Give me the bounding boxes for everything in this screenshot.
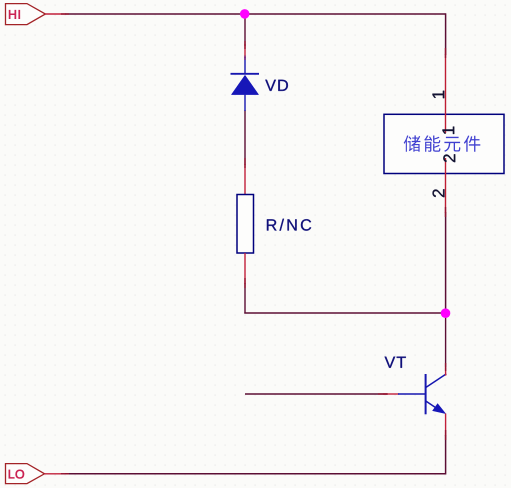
wire transition above diode VD (244, 41, 246, 49)
port LO stub (45, 473, 66, 475)
wire transition below pin 2 of U1 (445, 207, 447, 217)
label 储 (404, 135, 421, 151)
port LO (6, 464, 45, 484)
transistor VT bar (425, 374, 427, 414)
wire box to node (445, 212, 447, 313)
storage element box pin 2 red (445, 158, 447, 213)
wire transition at HI port stub (61, 13, 69, 15)
transistor VT emitter pin red (445, 414, 447, 437)
storage element box body (384, 114, 504, 173)
wire diode to resistor (244, 110, 246, 165)
wire transition into diode VD anode-side pin (244, 56, 246, 61)
diode VD triangle (231, 75, 258, 94)
diode VD cathode bar (231, 73, 260, 75)
label VT (385, 357, 406, 368)
wire top-right vertical (445, 13, 447, 55)
junction node right (441, 308, 451, 318)
storage element box pin 1 red (445, 54, 447, 133)
pin 1 number outside (433, 91, 445, 98)
label 件 (464, 136, 480, 152)
wire transition at LO port stub (61, 473, 69, 475)
resistor R/NC pin top red (244, 164, 246, 195)
resistor R/NC body (237, 195, 254, 254)
wire emitter to bottom (445, 435, 447, 475)
wire transition below emitter of VT (445, 430, 447, 440)
label 能 (424, 135, 440, 151)
transistor VT emitter arrow (432, 403, 446, 414)
pin 2 name inside (443, 154, 455, 162)
wire transition above pin 1 of U1 (445, 48, 447, 58)
pin 2 number outside (433, 189, 445, 197)
label R/NC (267, 219, 311, 231)
resistor R/NC pin bottom red (244, 253, 246, 284)
wire transition above collector of VT (445, 363, 447, 371)
transistor VT base pin blue (398, 393, 426, 395)
port HI (6, 4, 46, 25)
wire bottom horizontal (65, 473, 446, 475)
wire middle horizontal (244, 312, 445, 314)
wire transition below resistor R/NC (244, 278, 246, 288)
diode VD pin top red segment (244, 44, 246, 58)
diode VD pin bottom blue segment (244, 95, 246, 111)
wire diode branch upper (244, 14, 246, 46)
wire collector (445, 313, 447, 367)
transistor VT collector diagonal (426, 374, 447, 388)
pin 1 name inside (443, 127, 455, 134)
transistor VT collector pin red (445, 367, 447, 375)
wire transition on base wire of VT (378, 393, 388, 395)
label VD (265, 80, 288, 91)
label 元 (444, 137, 460, 152)
transistor VT emitter diagonal (426, 401, 441, 411)
transistor VT base pin red (383, 393, 399, 395)
junction node top (240, 9, 250, 19)
wire top horizontal (65, 13, 446, 15)
port HI stub (45, 13, 65, 15)
diode VD pin top blue segment (244, 57, 246, 74)
wire transition above resistor R/NC (244, 158, 246, 168)
wire resistor to node (244, 283, 246, 314)
wire base (245, 393, 387, 395)
